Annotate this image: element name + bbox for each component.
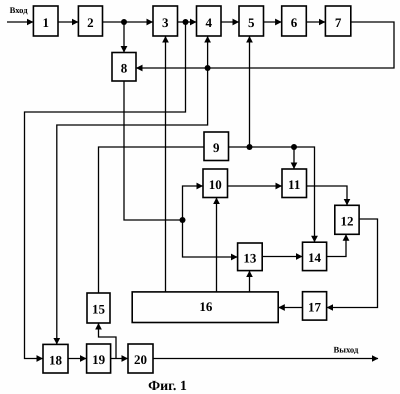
wire block 16 top up into block 10 bottom xyxy=(216,198,218,292)
wire block 13 to block 14 xyxy=(262,256,302,258)
wire junction down and right into block 13 left xyxy=(183,220,238,257)
svg-text:8: 8 xyxy=(121,61,128,76)
svg-text:12: 12 xyxy=(341,214,354,229)
block 10 xyxy=(203,169,228,198)
wire node after block 3 down left down right into block 18 left xyxy=(25,22,186,359)
wire block 1 to block 2 xyxy=(58,21,78,23)
block 8 xyxy=(112,53,136,82)
wire block 3 to block 4 xyxy=(178,21,197,23)
svg-text:10: 10 xyxy=(209,177,222,192)
node junction on feedback line below block 4 xyxy=(205,65,211,71)
block 15 xyxy=(87,293,110,323)
block 9 xyxy=(204,132,229,161)
wire block 10 to block 11 xyxy=(228,185,282,187)
wire junction up into block 4 bottom xyxy=(207,36,209,68)
node junction on block 9 output below block 5 xyxy=(247,144,253,150)
svg-text:16: 16 xyxy=(199,299,213,314)
wire junction up into block 5 bottom xyxy=(249,36,251,147)
wire junction down into block 8 top xyxy=(123,22,125,52)
wire block 16 top up into block 3 bottom xyxy=(165,36,167,292)
block 4 xyxy=(197,6,222,36)
wire block 7 feedback right down and left into block 8 right xyxy=(136,22,394,68)
svg-text:20: 20 xyxy=(134,352,147,367)
node junction after block 3 xyxy=(183,19,189,25)
svg-text:6: 6 xyxy=(291,15,298,30)
svg-text:Выход: Выход xyxy=(334,345,359,355)
svg-text:7: 7 xyxy=(335,15,342,30)
block 5 xyxy=(239,6,264,36)
block 20 xyxy=(128,344,153,373)
wire junction down into block 11 top xyxy=(293,147,295,169)
svg-text:Фиг. 1: Фиг. 1 xyxy=(148,379,187,394)
node junction below block 8 route xyxy=(180,217,186,223)
wire block 18 to block 19 xyxy=(68,358,86,360)
wire block 14 right corner up into block 12 bottom xyxy=(327,235,346,257)
wire block 4 to block 5 xyxy=(221,21,239,23)
wire block 16 top up into block 13 bottom xyxy=(249,271,251,292)
svg-text:1: 1 xyxy=(42,15,49,30)
block 3 xyxy=(153,6,178,36)
svg-text:3: 3 xyxy=(162,15,169,30)
svg-text:14: 14 xyxy=(308,250,322,265)
node junction on block 9 output above block 11 xyxy=(291,144,297,150)
svg-text:11: 11 xyxy=(288,177,300,192)
block 11 xyxy=(282,169,307,198)
wire block 6 to block 7 xyxy=(306,21,325,23)
wire block 11 right corner down into block 12 top xyxy=(307,186,348,205)
wire block 9 output left down into block 15 top xyxy=(99,147,205,293)
block 18 xyxy=(43,344,68,373)
wire block 12 right down left into block 17 right xyxy=(327,219,378,308)
block 19 xyxy=(87,344,111,373)
svg-text:19: 19 xyxy=(92,352,106,367)
block 16 xyxy=(132,292,278,323)
block 12 xyxy=(335,205,359,234)
svg-text:13: 13 xyxy=(243,251,257,266)
block 17 xyxy=(303,292,327,320)
block 2 xyxy=(78,6,102,36)
svg-text:9: 9 xyxy=(213,140,220,155)
wire block 20 output to Выход arrow xyxy=(153,358,378,360)
wire block 9 output right to corner down into block 14 top xyxy=(229,147,315,242)
block 13 xyxy=(238,243,263,271)
wire block 19 to block 20 xyxy=(111,358,128,360)
svg-text:2: 2 xyxy=(87,15,94,30)
block 6 xyxy=(282,6,307,36)
svg-text:5: 5 xyxy=(248,15,255,30)
block 7 xyxy=(325,6,350,36)
wire junction down left down into block 18 top xyxy=(57,68,208,344)
block 14 xyxy=(303,242,327,270)
block 1 xyxy=(33,6,58,36)
wire block 5 to block 6 xyxy=(264,21,282,23)
svg-text:Вход: Вход xyxy=(10,5,29,15)
wire block 17 left into block 16 right xyxy=(279,307,303,309)
wire block 19 branch up left up into block 15 bottom xyxy=(99,323,117,358)
svg-text:17: 17 xyxy=(308,300,322,315)
wire block 8 bottom down and right to junction xyxy=(124,81,183,220)
node junction after block 2 xyxy=(121,19,127,25)
svg-text:4: 4 xyxy=(205,15,212,30)
wire junction up and right into block 10 left xyxy=(183,186,203,220)
wire input arrow into block 1 xyxy=(7,21,33,23)
svg-text:18: 18 xyxy=(49,352,63,367)
svg-text:15: 15 xyxy=(92,302,106,317)
wire block 2 to block 3 xyxy=(103,21,153,23)
